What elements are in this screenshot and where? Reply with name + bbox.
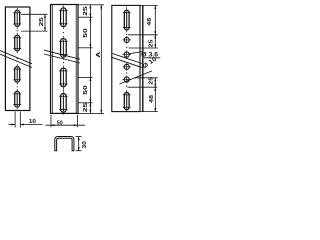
strip 2 inner edge lines — [51, 5, 53, 114]
strip 3 outline — [112, 5, 140, 111]
strip 1 outline — [5, 7, 30, 111]
leader diameter 10 — [120, 71, 153, 84]
dimension 48 top extension lines — [140, 4, 158, 6]
strip 1 break lines — [0, 51, 32, 64]
svg-text:25: 25 — [39, 16, 45, 26]
svg-text:10: 10 — [29, 119, 36, 125]
strip 2 slot 2 — [61, 39, 67, 58]
svg-text:Ø 3.6: Ø 3.6 — [141, 52, 159, 58]
strip 3 side view edge — [142, 5, 144, 111]
strip 3 break lines — [111, 53, 142, 64]
dimension A extension lines — [93, 4, 105, 6]
strip 2 slot 3 — [61, 68, 67, 87]
strip 3 hole 3 — [124, 64, 129, 69]
dimension 50 extension lines — [50, 115, 52, 127]
strip 3 top slot — [124, 10, 129, 30]
leader diameter 3.6 — [128, 52, 142, 54]
svg-text:30: 30 — [82, 141, 88, 149]
svg-text:25: 25 — [83, 102, 89, 113]
svg-text:48: 48 — [147, 17, 153, 26]
strip 3 hole 1 — [124, 37, 129, 42]
leader shelf 3.6 — [144, 57, 161, 59]
strip 2 break lines — [44, 50, 80, 59]
strip 3 hole 2 — [124, 52, 129, 57]
dimension 30 line — [78, 137, 80, 151]
strip 1 slot 2 — [15, 35, 20, 51]
strip 3 bottom slot — [124, 92, 129, 109]
strip 1 centerline dots — [17, 30, 18, 31]
svg-text:25: 25 — [148, 39, 154, 48]
strip 2 centerline dots — [63, 32, 64, 33]
dimension 25 bottom line — [154, 78, 156, 112]
svg-text:50: 50 — [83, 28, 89, 38]
strip 1 slot 3 — [15, 67, 20, 83]
strip 2 outline — [51, 5, 79, 114]
strip 3 hole 4 — [124, 77, 129, 82]
strip 1 slot 4 — [15, 91, 20, 107]
dimension 30 extension lines — [76, 136, 82, 138]
channel profile — [55, 137, 74, 151]
svg-text:48: 48 — [149, 94, 155, 103]
dimension A line — [100, 5, 102, 114]
dimension 10 line and arrows — [9, 124, 16, 126]
dimension 10 extension lines — [14, 112, 16, 128]
strip 2 slot 1 — [61, 8, 67, 27]
svg-text:50: 50 — [57, 121, 63, 127]
svg-text:50: 50 — [83, 85, 89, 95]
dimension 25 extension lines — [21, 13, 47, 15]
svg-text:25: 25 — [83, 5, 89, 16]
dimension 48 top line — [154, 5, 156, 48]
dimension 50 line and arrows — [46, 124, 86, 126]
chain dimension line 25-50-50-25 — [89, 5, 91, 114]
strip 3 centerline dots — [126, 34, 127, 35]
dimension 25 line and arrows — [44, 14, 46, 31]
chain extension lines — [78, 4, 92, 6]
strip 2 slot 4 — [61, 94, 67, 113]
dimension 25 bottom extension lines — [135, 77, 158, 79]
strip 1 slot 1 — [15, 10, 20, 26]
svg-text:25: 25 — [149, 76, 155, 85]
